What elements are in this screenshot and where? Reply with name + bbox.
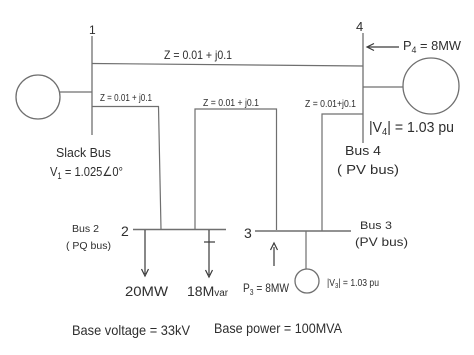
wire G1 stub to bus 1	[60, 91, 92, 93]
svg-text:18Mvar: 18Mvar	[187, 283, 229, 299]
svg-text:|V4| = 1.03 pu: |V4| = 1.03 pu	[369, 119, 454, 138]
bus 2 bar	[133, 229, 226, 231]
arrow P4 into bus 4	[367, 44, 399, 51]
arrow P3 into bus 3	[271, 243, 278, 266]
svg-text:Bus 4: Bus 4	[345, 143, 381, 158]
svg-text:Slack Bus: Slack Bus	[56, 145, 111, 160]
svg-text:3: 3	[244, 225, 252, 241]
svg-text:Base power = 100MVA: Base power = 100MVA	[214, 320, 343, 336]
svg-text:4: 4	[356, 19, 363, 34]
svg-text:Base voltage = 33kV: Base voltage = 33kV	[72, 322, 191, 338]
svg-text:Z = 0.01 + j0.1: Z = 0.01 + j0.1	[203, 97, 259, 109]
wire G3 stub	[305, 231, 307, 269]
svg-text:Bus 3: Bus 3	[360, 220, 392, 232]
bus 1	[91, 36, 93, 135]
bus 4	[362, 33, 364, 143]
generator G4	[403, 58, 459, 114]
wire line 3-4 branch	[322, 114, 363, 231]
svg-text:Z = 0.01 + j0.1: Z = 0.01 + j0.1	[100, 93, 152, 104]
svg-text:P3 = 8MW: P3 = 8MW	[243, 281, 290, 297]
wire line 1-2 branch	[92, 107, 161, 230]
load arrow 20MW	[142, 230, 149, 276]
load arrow 18Mvar	[204, 230, 215, 277]
svg-text:1: 1	[89, 23, 96, 37]
svg-text:20MW: 20MW	[125, 283, 169, 299]
svg-text:(PV bus): (PV bus)	[355, 235, 408, 249]
bus 3 bar	[255, 230, 351, 232]
wire G4 stub	[363, 86, 403, 88]
wire line 1-4 (top branch)	[92, 64, 363, 67]
generator G3	[295, 269, 319, 293]
svg-text:Bus 2: Bus 2	[72, 224, 99, 235]
svg-text:2: 2	[121, 223, 129, 239]
svg-text:Z = 0.01 + j0.1: Z = 0.01 + j0.1	[164, 48, 232, 62]
svg-text:( PQ bus): ( PQ bus)	[66, 241, 111, 252]
svg-text:|V3| = 1.03 pu: |V3| = 1.03 pu	[327, 278, 379, 290]
svg-text:V1 = 1.025∠0°: V1 = 1.025∠0°	[50, 164, 123, 181]
generator G1 (slack)	[16, 75, 60, 119]
svg-text:( PV bus): ( PV bus)	[337, 162, 399, 177]
svg-text:Z = 0.01+j0.1: Z = 0.01+j0.1	[305, 99, 356, 110]
wire line 2-3 branch	[195, 109, 277, 230]
svg-text:P4 = 8MW: P4 = 8MW	[403, 38, 462, 55]
